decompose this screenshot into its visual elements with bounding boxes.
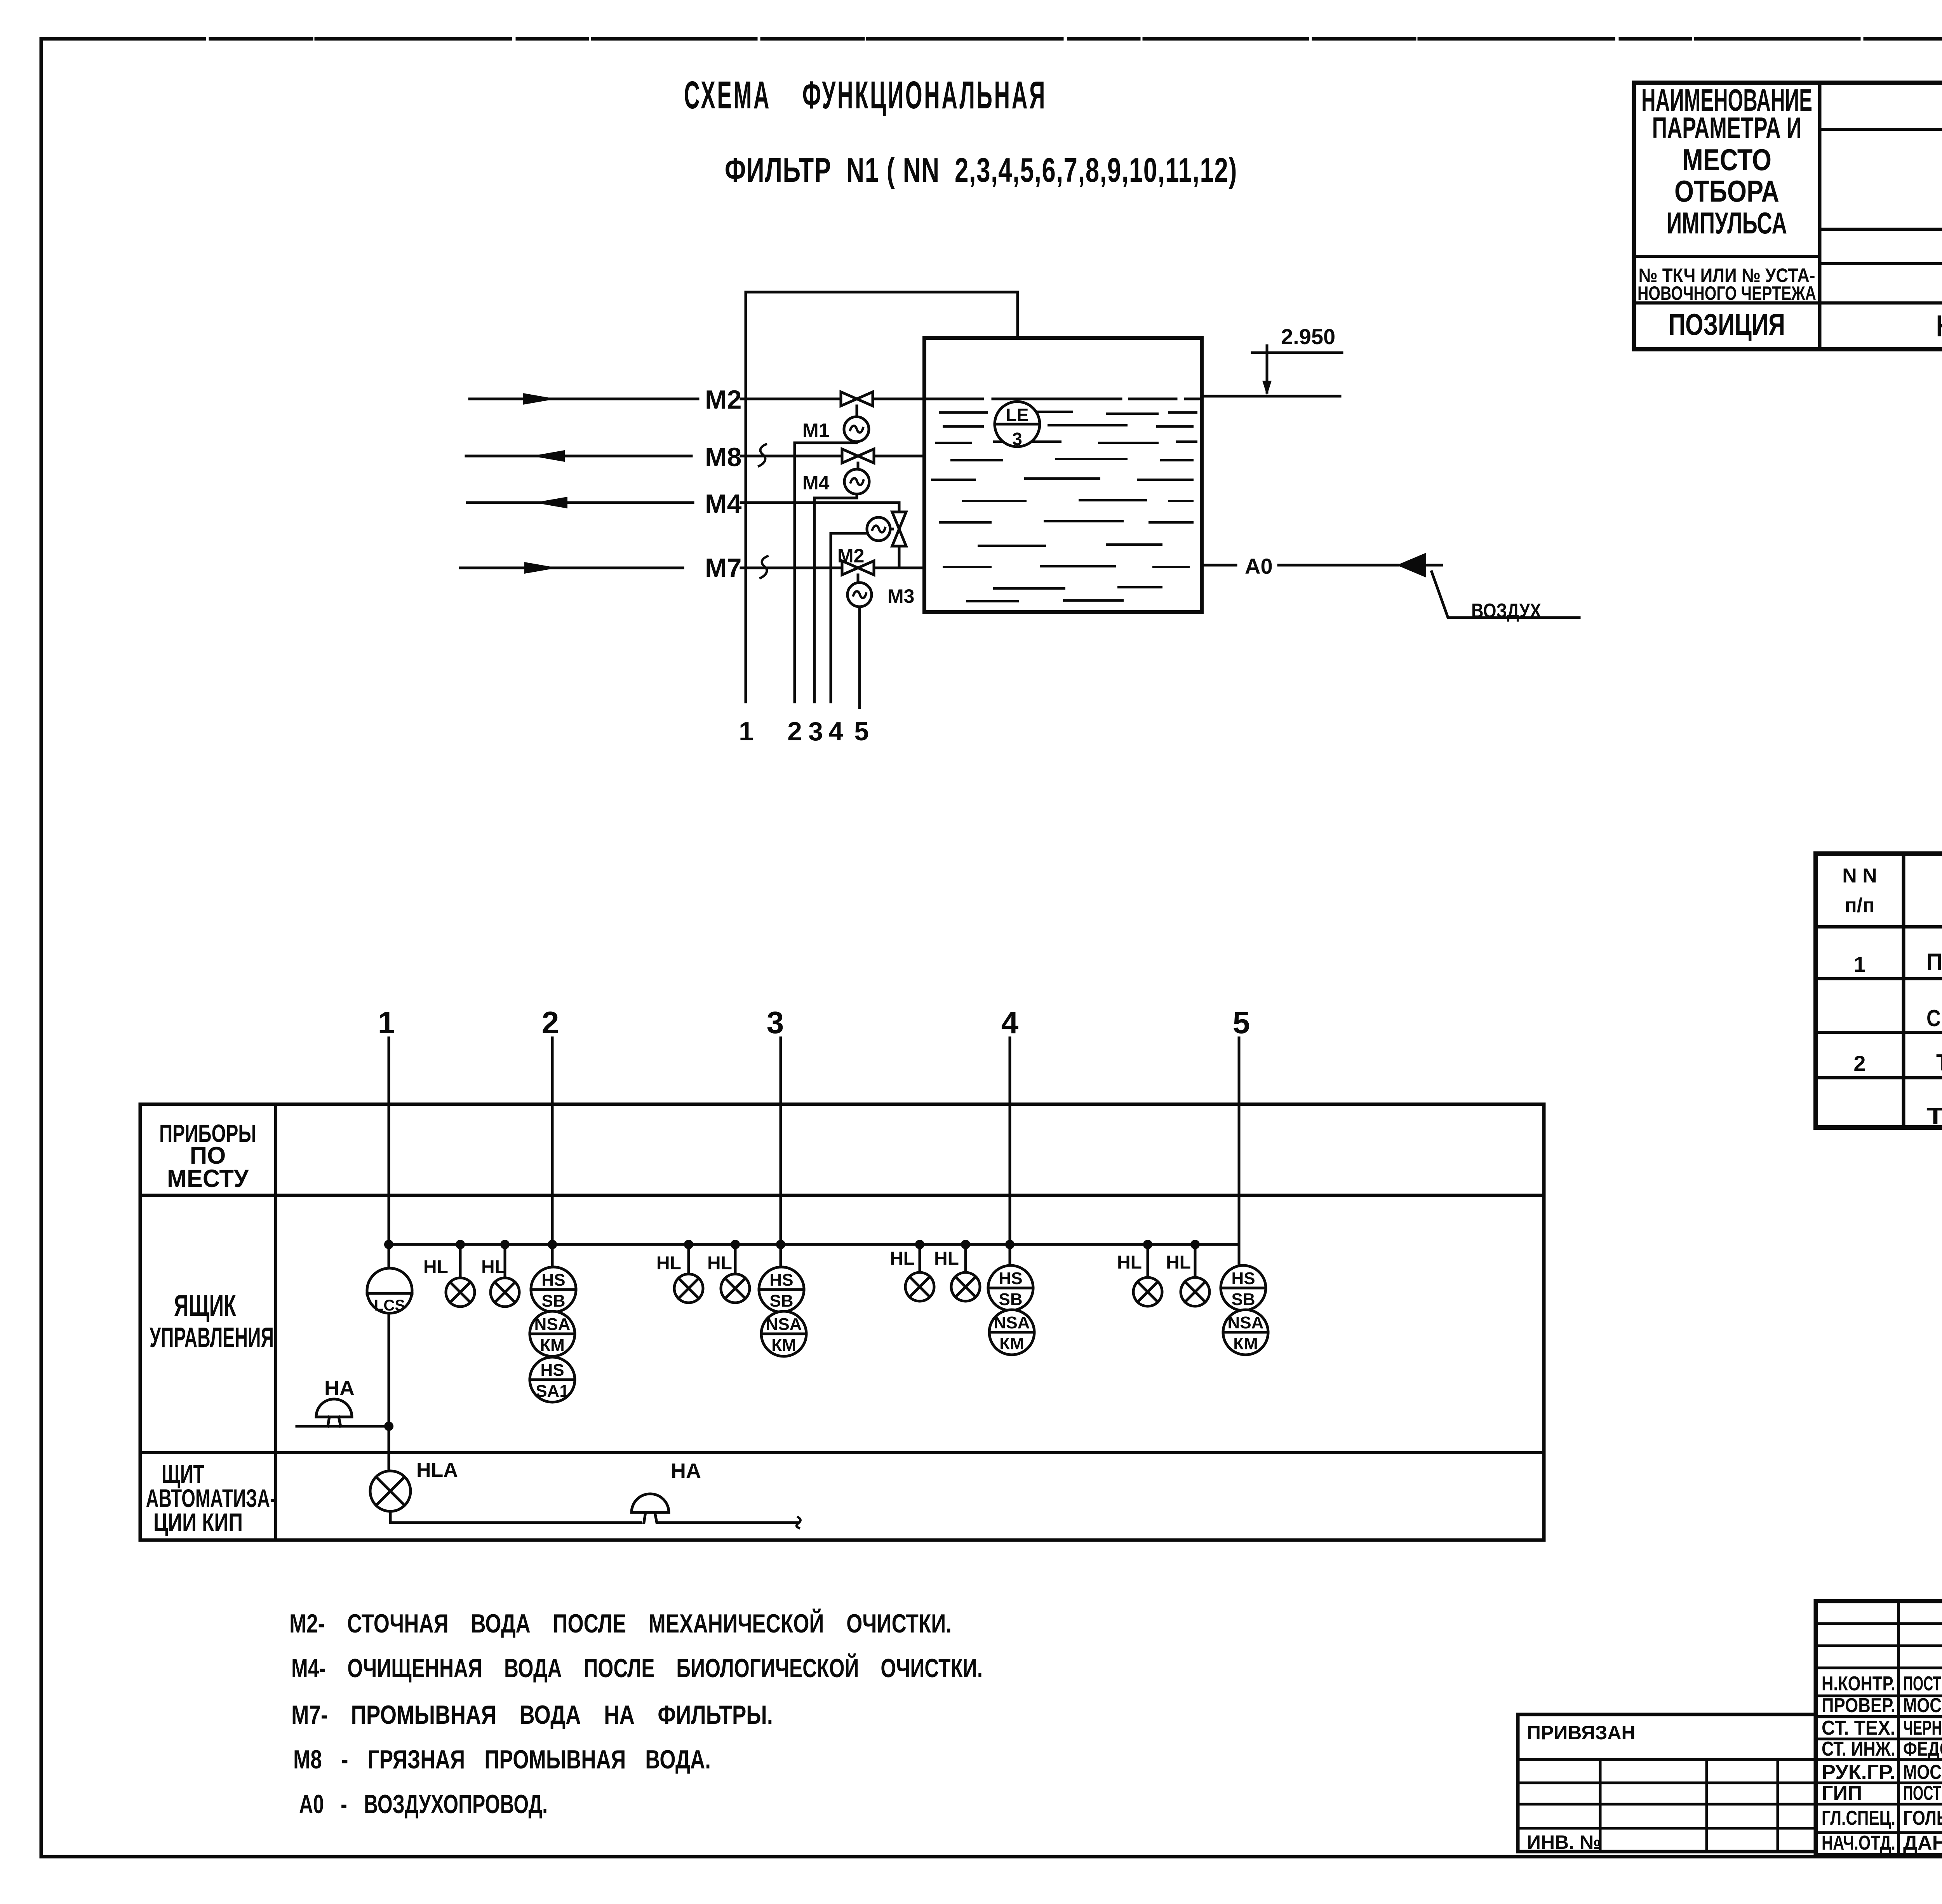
svg-text:ЧЕРНЫШЕВА: ЧЕРНЫШЕВА [1903,1717,1942,1739]
svg-text:SB: SB [541,1291,565,1311]
instrument stack line 5: HS/SB [1221,1265,1266,1311]
pipe M2 run [741,398,924,400]
parameter table [1634,83,1942,349]
instrument HS/SA1 [530,1357,575,1402]
instrument NSA/KM [989,1310,1034,1355]
svg-text:ФЕДОРОВА: ФЕДОРОВА [1903,1738,1942,1760]
svg-text:N N: N N [1842,865,1877,887]
conduit 1 riser [745,292,747,702]
svg-text:М4: М4 [802,472,830,494]
instrument LCS [367,1268,412,1313]
svg-text:КОМПЛЕКТНО С ЯЩИКОМ УПРАВЛЕНИЯ: КОМПЛЕКТНО С ЯЩИКОМ УПРАВЛЕНИЯ ЯУ1(ЯУ2÷Я… [1936,309,1942,343]
frame bottom border [41,1855,1942,1859]
instrument stack line 2: HS/SB [531,1267,576,1312]
svg-text:МЕСТУ: МЕСТУ [167,1164,249,1192]
break squiggle on M7 [760,556,767,578]
svg-text:КМ: КМ [771,1336,796,1355]
svg-text:ТРУБА ВИНИПЛАСТОВАЯ: ТРУБА ВИНИПЛАСТОВАЯ [1936,1049,1942,1076]
pipe A0 out [1202,564,1236,567]
instrument NSA/KM [761,1311,806,1356]
conduit 2 riser [794,443,796,702]
svg-text:3: 3 [1012,429,1022,449]
svg-text:ТУ6-19-051-249-79: ТУ6-19-051-249-79 [1926,1103,1942,1129]
wire M8 outlet arrow [466,455,691,458]
svg-text:СХЕМА ФУНКЦИОНАЛЬНАЯ: СХЕМА ФУНКЦИОНАЛЬНАЯ [684,73,1047,117]
lamp HL [919,1244,921,1272]
break squiggle on M8 [759,444,766,466]
conduit 4 riser [830,533,832,702]
svg-text:5: 5 [854,717,869,746]
svg-text:HS: HS [540,1361,564,1380]
actuator M1 [856,406,858,417]
instrument NSA/KM [530,1311,575,1356]
svg-text:М1: М1 [802,419,829,441]
svg-text:НА: НА [324,1377,355,1400]
lamp HL [734,1244,737,1274]
bus wire in Ящик band [389,1243,1239,1246]
vertical valve on M4 branch [892,512,906,529]
svg-text:КМ: КМ [999,1334,1024,1353]
pipe M7 run [741,567,924,569]
svg-text:ОТБОРА: ОТБОРА [1674,174,1779,208]
svg-text:HL: HL [656,1253,681,1274]
svg-text:HL: HL [481,1257,506,1277]
svg-text:СЕЧЕНИЕМ 1 КВ. ММ.: СЕЧЕНИЕМ 1 КВ. ММ. [1926,1005,1942,1031]
svg-text:МЕСТО: МЕСТО [1682,143,1771,177]
wire M4 outlet arrow [467,501,693,504]
wire to conduit 2 [795,442,856,443]
svg-text:3: 3 [767,1005,784,1040]
actuator M3 [857,575,860,583]
svg-text:HL: HL [1117,1252,1142,1273]
svg-text:NSA: NSA [766,1315,802,1334]
wire M2 inlet arrow [470,398,698,400]
wire to conduit 3 [814,494,857,498]
svg-text:HL: HL [707,1253,732,1274]
svg-text:ПОЗИЦИЯ: ПОЗИЦИЯ [1669,307,1785,341]
valve on M7 line [842,561,858,575]
svg-text:ЯЩИК: ЯЩИК [174,1288,236,1323]
svg-text:НА: НА [671,1459,701,1483]
svg-text:ГЛ.СПЕЦ.: ГЛ.СПЕЦ. [1822,1807,1895,1829]
svg-text:3: 3 [808,717,823,746]
pipe M8 run [741,455,924,458]
svg-text:ДАНИЛОВ: ДАНИЛОВ [1903,1832,1942,1854]
svg-text:СТ. ТЕХ.: СТ. ТЕХ. [1822,1717,1895,1739]
svg-text:КМ: КМ [1233,1334,1258,1353]
svg-text:SB: SB [769,1291,793,1311]
lamp HLA [370,1471,411,1511]
instrumentation grid [140,1104,1544,1540]
svg-text:НАЧ.ОТД.: НАЧ.ОТД. [1822,1832,1895,1854]
instrument NSA/KM [1223,1310,1268,1355]
svg-text:А0 - ВОЗДУХОПРОВОД.: А0 - ВОЗДУХОПРОВОД. [299,1789,548,1819]
air inlet arrowhead [1397,553,1426,578]
attachment table ПРИВЯЗАН [1518,1714,1816,1852]
svg-text:ПОСТНИКОВА: ПОСТНИКОВА [1903,1782,1942,1805]
svg-text:М8: М8 [705,442,741,472]
svg-text:ИНВ. №: ИНВ. № [1527,1831,1601,1853]
svg-text:SB: SB [1231,1290,1255,1309]
svg-text:МОСЕЕНКО: МОСЕЕНКО [1903,1761,1942,1784]
svg-text:5: 5 [1233,1005,1250,1040]
cable risers into grid [388,1038,390,1268]
title block [1816,1601,1942,1855]
svg-text:ПРИВЯЗАН: ПРИВЯЗАН [1527,1722,1636,1744]
svg-text:М3: М3 [887,585,914,607]
svg-text:А0: А0 [1245,554,1273,578]
svg-text:1: 1 [739,717,753,746]
svg-text:2: 2 [1853,1051,1865,1076]
svg-text:HL: HL [934,1248,959,1269]
actuator M2 (valve) [867,517,890,541]
svg-text:4: 4 [1001,1005,1019,1040]
wire line1 to HLA [388,1426,390,1471]
svg-text:М7: М7 [705,553,741,583]
wire HLA to horn HA (panel) [390,1511,641,1523]
svg-text:СТ. ИНЖ.: СТ. ИНЖ. [1822,1738,1895,1760]
leader to воздух [1432,572,1579,618]
svg-text:HS: HS [769,1270,793,1290]
svg-text:HS: HS [541,1270,565,1290]
loop wire to level element [746,292,1018,402]
svg-text:LE: LE [1006,405,1029,425]
svg-text:КМ: КМ [540,1336,565,1355]
svg-text:ГОЛЬЦМАН: ГОЛЬЦМАН [1903,1807,1942,1829]
svg-text:NSA: NSA [994,1313,1030,1332]
instrument stack line 4: HS/SB [988,1265,1033,1311]
junction dots [389,1240,1195,1249]
valve on M8 line [842,449,858,463]
svg-text:МОСЕЕНКО: МОСЕЕНКО [1903,1694,1942,1717]
pipe M4 run [741,503,899,512]
svg-text:HL: HL [423,1257,448,1277]
svg-text:ГИП: ГИП [1822,1782,1862,1805]
level element LE 3 [995,402,1040,447]
wire M7 inlet arrow [460,567,683,569]
svg-text:1: 1 [378,1005,395,1040]
svg-text:ПАРАМЕТРА И: ПАРАМЕТРА И [1652,111,1802,144]
svg-text:1: 1 [1853,952,1865,976]
svg-text:УПРАВЛЕНИЯ: УПРАВЛЕНИЯ [150,1322,274,1353]
svg-text:2: 2 [542,1005,559,1040]
svg-text:ВОЗДУХ: ВОЗДУХ [1471,600,1541,622]
svg-text:ЦИИ КИП: ЦИИ КИП [153,1508,243,1537]
wire to conduit 4 [831,532,867,535]
lamp HL [1147,1244,1149,1277]
svg-text:HL: HL [1166,1252,1191,1273]
actuator M4 [857,463,860,469]
svg-text:HS: HS [999,1269,1022,1288]
lamp HL [1194,1244,1197,1277]
pipe from vertical valve to M7 line [898,546,901,568]
frame top dashed border [41,37,1942,41]
svg-text:HLA: HLA [416,1459,458,1481]
svg-text:М8 - ГРЯЗНАЯ ПРОМЫВНАЯ ВОДА.: М8 - ГРЯЗНАЯ ПРОМЫВНАЯ ВОДА. [293,1745,711,1774]
svg-text:NSA: NSA [1228,1313,1264,1332]
lamp HL [964,1244,967,1272]
lamp HL [459,1244,462,1278]
valve on M2 line [841,392,857,406]
wire to conduit 5 [858,607,861,708]
svg-text:ПРОВОД ГИБКИЙ ПВ ГОСТ 632: ПРОВОД ГИБКИЙ ПВ ГОСТ 6323-76 [1926,949,1942,976]
svg-text:М2- СТОЧНАЯ ВОДА ПОСЛЕ МЕХ: М2- СТОЧНАЯ ВОДА ПОСЛЕ МЕХАНИЧЕСКОЙ ОЧИС… [289,1608,952,1638]
svg-text:2: 2 [787,717,802,746]
svg-text:ПОСТНИКОВА: ПОСТНИКОВА [1903,1673,1942,1695]
svg-text:4: 4 [828,717,843,746]
svg-text:SA1: SA1 [536,1382,569,1401]
lamp HL [504,1244,506,1278]
svg-text:HS: HS [1231,1269,1255,1288]
svg-text:РУК.ГР.: РУК.ГР. [1822,1761,1895,1784]
frame left border [40,39,43,1857]
svg-text:М4: М4 [705,489,742,519]
horn HA (box) [297,1425,389,1428]
svg-text:ИМПУЛЬСА: ИМПУЛЬСА [1667,206,1787,240]
materials table [1816,854,1942,1128]
lamp HL [687,1244,690,1274]
conduit 3 riser [813,498,816,702]
water texture dashes [932,412,1196,601]
level datum line right of tank [1202,395,1340,398]
svg-text:НОВОЧНОГО ЧЕРТЕЖА: НОВОЧНОГО ЧЕРТЕЖА [1637,282,1816,304]
wire end tick [797,1517,800,1528]
svg-text:HL: HL [890,1248,915,1269]
svg-text:LCS: LCS [374,1297,405,1314]
instrument stack line 3: HS/SB [759,1267,804,1312]
svg-text:М2: М2 [705,385,741,414]
svg-text:Н.КОНТР.: Н.КОНТР. [1822,1673,1895,1695]
svg-text:SB: SB [999,1290,1022,1309]
svg-text:ФИЛЬТР N1 ( NN 2,3,4,5,6,7,8: ФИЛЬТР N1 ( NN 2,3,4,5,6,7,8,9,10,11,12) [725,151,1237,189]
svg-text:М7- ПРОМЫВНАЯ ВОДА НА ФИЛЬ: М7- ПРОМЫВНАЯ ВОДА НА ФИЛЬТРЫ. [291,1700,773,1730]
horn HA (panel) [632,1494,669,1512]
water level line in tank [924,398,1202,400]
svg-text:М4- ОЧИЩЕННАЯ ВОДА ПОСЛЕ Б: М4- ОЧИЩЕННАЯ ВОДА ПОСЛЕ БИОЛОГИЧЕСКОЙ О… [291,1653,983,1683]
svg-text:п/п: п/п [1845,894,1874,917]
tank [924,338,1202,612]
svg-text:NSA: NSA [534,1315,571,1334]
svg-text:2.950: 2.950 [1281,324,1335,349]
svg-text:ПРОВЕР.: ПРОВЕР. [1822,1694,1895,1717]
